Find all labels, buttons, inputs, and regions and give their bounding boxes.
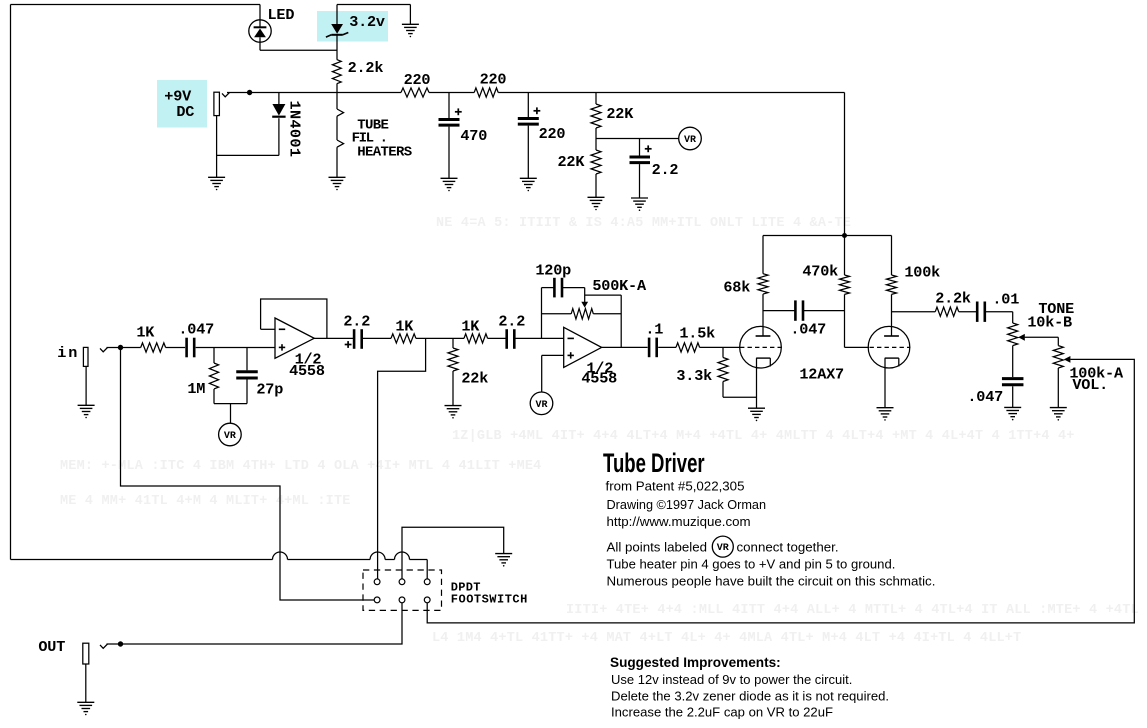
capacitor 470uF bbox=[448, 93, 450, 119]
svg-text:1.5k: 1.5k bbox=[679, 324, 715, 342]
svg-text:MEM: +-MLA :ITC 4 IBM 4TH+ LT: MEM: +-MLA :ITC 4 IBM 4TH+ LTD 4 OLA +4I… bbox=[60, 459, 541, 474]
capacitor .047 input bbox=[185, 338, 188, 358]
svg-text:Suggested Improvements:: Suggested Improvements: bbox=[610, 655, 781, 670]
svg-text:in: in bbox=[57, 344, 79, 362]
svg-text:Increase the 2.2uF cap on VR t: Increase the 2.2uF cap on VR to 22uF bbox=[611, 705, 833, 720]
resistor 220 first bbox=[401, 88, 429, 97]
potentiometer VOL 100k-A bbox=[1057, 337, 1059, 345]
VR node circle inline bbox=[712, 536, 733, 557]
vol pot wiper arrow bbox=[1064, 356, 1071, 363]
ground under vol pot bbox=[1050, 407, 1067, 409]
op-amp U1A 1/2 4558 bbox=[275, 318, 314, 358]
potentiometer TONE 10k-B bbox=[1008, 323, 1018, 346]
junction node on rail bbox=[247, 90, 252, 95]
capacitor 27p bbox=[246, 348, 248, 371]
jack tip contact out bbox=[100, 644, 108, 648]
wire top-left to LED bbox=[11, 4, 261, 6]
svg-text:.1: .1 bbox=[645, 320, 663, 338]
svg-text:HEATERS: HEATERS bbox=[357, 145, 412, 161]
capacitor .047 tone bbox=[1002, 377, 1024, 380]
wire out jack bbox=[107, 643, 121, 645]
svg-text:DC: DC bbox=[176, 103, 194, 121]
svg-text:Drawing ©1997 Jack Orman: Drawing ©1997 Jack Orman bbox=[607, 498, 767, 512]
svg-text:connect together.: connect together. bbox=[737, 540, 839, 555]
svg-text:.047: .047 bbox=[178, 321, 214, 339]
svg-text:ME 4 MM+ 41TL 4+M 4 MLIT+ 4+ML: ME 4 MM+ 41TL 4+M 4 MLIT+ 4+ML :ITE bbox=[60, 494, 351, 509]
svg-text:IITI+ 4TE+ 4+4 :MLL 4ITT 4+4 A: IITI+ 4TE+ 4+4 :MLL 4ITT 4+4 ALL+ 4 MTTL… bbox=[566, 603, 1139, 618]
svg-text:from Patent #5,022,305: from Patent #5,022,305 bbox=[606, 479, 745, 494]
wire cap to opamp bbox=[196, 347, 275, 349]
ground under tone cap bbox=[1004, 406, 1021, 408]
wire V1B plate output bbox=[892, 311, 936, 313]
wire to opamp2 bbox=[515, 337, 564, 339]
resistor 470k bbox=[844, 236, 846, 276]
VR node circle psu bbox=[679, 127, 702, 150]
svg-text:All points labeled: All points labeled bbox=[607, 540, 708, 555]
wire left border down bbox=[10, 5, 12, 560]
wire LED loop to footswitch with hops bbox=[11, 559, 273, 561]
svg-text:500K-A: 500K-A bbox=[592, 277, 647, 295]
svg-text:22K: 22K bbox=[606, 105, 634, 123]
highlight box 3.2v bbox=[317, 11, 388, 42]
footswitch lugs bbox=[374, 579, 380, 585]
svg-text:Tube Driver: Tube Driver bbox=[603, 448, 705, 478]
svg-text:2.2k: 2.2k bbox=[935, 289, 971, 307]
svg-text:LED: LED bbox=[268, 6, 295, 24]
wire input bbox=[107, 347, 141, 349]
resistor 2.2k output bbox=[935, 307, 958, 316]
resistor 220 second bbox=[474, 88, 498, 97]
ground under 470uF bbox=[441, 177, 458, 179]
svg-text:1K: 1K bbox=[461, 317, 480, 335]
svg-text:VR: VR bbox=[535, 400, 547, 411]
wire VR node bbox=[596, 138, 679, 140]
ground under 22k shunt bbox=[445, 405, 462, 407]
wire 1K to 2.2 cap bbox=[488, 337, 506, 339]
capacitor 120p bbox=[553, 278, 556, 298]
plate lead V1A bbox=[762, 294, 764, 336]
highlight box +9V DC bbox=[157, 80, 207, 128]
grid wire V1B bbox=[845, 346, 870, 348]
resistor 68k bbox=[762, 236, 764, 274]
svg-text:VR: VR bbox=[684, 135, 696, 146]
svg-text:2.2: 2.2 bbox=[498, 312, 525, 330]
junction dot out bbox=[118, 641, 123, 646]
svg-text:12AX7: 12AX7 bbox=[799, 366, 844, 384]
wire 9V jack sleeve to diode bbox=[217, 154, 279, 156]
svg-text:2.2k: 2.2k bbox=[348, 59, 384, 77]
svg-text:10k-B: 10k-B bbox=[1027, 314, 1072, 332]
wire wiper to output side bbox=[585, 294, 622, 296]
wire top zener to ground bbox=[337, 4, 410, 6]
svg-text:220: 220 bbox=[404, 71, 431, 89]
svg-text:1Z|GLB +4ML 4IT+ 4+4 4LT+4 M+4: 1Z|GLB +4ML 4IT+ 4+4 4LT+4 M+4 +4TL 4+ 4… bbox=[452, 429, 1075, 444]
capacitor 2.2uF VR filter bbox=[639, 139, 641, 156]
svg-text:27p: 27p bbox=[256, 381, 283, 399]
resistor 1K mid bbox=[391, 334, 416, 343]
potentiometer 500K-A bbox=[542, 313, 572, 315]
capacitor 2.2 second bbox=[505, 329, 508, 349]
capacitor 2.2 interstage bbox=[353, 329, 356, 349]
resistor 1K input bbox=[141, 343, 166, 352]
svg-text:22K: 22K bbox=[558, 153, 586, 171]
svg-text:3.3k: 3.3k bbox=[676, 367, 712, 385]
svg-text:2.2: 2.2 bbox=[343, 312, 370, 330]
wire junction to footswitch bbox=[378, 338, 426, 578]
wire opamp2 output bbox=[602, 346, 648, 348]
jack tip contact +9V bbox=[222, 93, 230, 97]
wire footswitch to out jack bbox=[121, 603, 403, 644]
wire opamp1 output bbox=[314, 337, 353, 339]
tone pot wiper arrow bbox=[1018, 334, 1025, 341]
ground under out jack bbox=[77, 701, 94, 703]
tube plate supply rail bbox=[763, 235, 892, 237]
svg-text:1N4001: 1N4001 bbox=[286, 101, 304, 158]
resistor 1K second bbox=[464, 334, 488, 343]
svg-text:120p: 120p bbox=[535, 261, 571, 279]
svg-text:100k: 100k bbox=[904, 263, 940, 281]
wire 120p to wiper bbox=[561, 287, 584, 289]
svg-text:.01: .01 bbox=[992, 290, 1019, 308]
svg-text:2.2: 2.2 bbox=[652, 161, 679, 179]
svg-text:NE 4=A 5: ITIIT & IS 4:A5 MM+I: NE 4=A 5: ITIIT & IS 4:A5 MM+ITL ONLT LI… bbox=[436, 216, 851, 231]
capacitor .01 bbox=[976, 302, 979, 322]
ground under heaters bbox=[329, 176, 346, 178]
main power rail bbox=[227, 92, 401, 94]
junction dot input bbox=[118, 345, 123, 350]
jack tip contact in bbox=[100, 348, 108, 352]
feedback network opamp2 bbox=[541, 288, 543, 339]
svg-text:22k: 22k bbox=[461, 369, 488, 387]
wire input tap to footswitch bbox=[121, 348, 375, 601]
svg-text:Tube heater pin 4 goes to +V a: Tube heater pin 4 goes to +V and pin 5 t… bbox=[607, 557, 896, 572]
jack output bbox=[83, 643, 89, 664]
resistor 1M bbox=[213, 348, 215, 364]
ground under 220uF bbox=[520, 177, 537, 179]
svg-text:4558: 4558 bbox=[581, 369, 617, 387]
svg-text:3.2v: 3.2v bbox=[349, 13, 385, 31]
svg-text:Numerous people have built the: Numerous people have built the circuit o… bbox=[607, 574, 936, 589]
triode V1B 12AX7 bbox=[868, 326, 910, 368]
footswitch dashed box bbox=[363, 570, 442, 610]
resistor 22k shunt bbox=[452, 338, 454, 348]
wire 1.5k to grid bbox=[700, 346, 740, 348]
wire cap to 1K bbox=[362, 337, 391, 339]
feedback wire op-amp1 bbox=[261, 328, 275, 330]
ground under V1B cathode bbox=[877, 407, 894, 409]
jack +9V DC bbox=[214, 92, 220, 115]
wire .1 to 1.5k bbox=[658, 346, 676, 348]
resistor 100k bbox=[891, 236, 893, 276]
svg-text:68k: 68k bbox=[723, 278, 750, 296]
LED bbox=[249, 20, 271, 42]
wire plate node V1A bbox=[763, 310, 795, 312]
svg-text:http://www.muzique.com: http://www.muzique.com bbox=[607, 514, 751, 529]
wire footswitch middle lug to ground bbox=[402, 527, 504, 579]
grid dashed line V1B bbox=[870, 346, 911, 348]
ground under input jack bbox=[78, 404, 95, 406]
resistor 22K upper bbox=[595, 93, 597, 105]
VR node circle input stage bbox=[219, 423, 242, 446]
wire 3.3k to cathode bbox=[723, 396, 757, 398]
cathode lead V1B bbox=[884, 358, 886, 408]
resistor 3.3k bbox=[722, 347, 724, 357]
svg-text:1M: 1M bbox=[187, 380, 205, 398]
wire mid junction bbox=[416, 337, 464, 339]
svg-text:220: 220 bbox=[480, 70, 507, 88]
tube filament heater element bbox=[336, 93, 338, 110]
ground under 22K bbox=[588, 196, 605, 198]
junction dot tube rail bbox=[842, 233, 847, 238]
ground under V1A cathode bbox=[748, 407, 765, 409]
wire 1M-27p bottom bbox=[214, 403, 247, 405]
ground under 9V jack bbox=[208, 176, 225, 178]
svg-text:FOOTSWITCH: FOOTSWITCH bbox=[451, 593, 528, 607]
wire rail corner down to tube rail bbox=[844, 93, 846, 236]
svg-text:1K: 1K bbox=[136, 324, 155, 342]
wire 2.2k to .01 bbox=[959, 311, 977, 313]
wire vol wiper to footswitch bbox=[427, 359, 1134, 623]
diode 1N4001 bbox=[278, 93, 280, 105]
capacitor 220uF bbox=[527, 93, 529, 118]
jack input bbox=[83, 347, 88, 366]
wire coupling cap to grid node bbox=[803, 310, 844, 312]
svg-text:L4 1M4 4+TL 41TT+ +4 MAT 4+LT: L4 1M4 4+TL 41TT+ +4 MAT 4+LT 4L+ 4+ 4ML… bbox=[432, 631, 1021, 646]
svg-text:.047: .047 bbox=[790, 321, 826, 339]
capacitor .1 bbox=[648, 338, 651, 358]
grid dashed line V1A bbox=[740, 346, 782, 348]
svg-text:Use 12v instead of 9v to power: Use 12v instead of 9v to power the circu… bbox=[611, 672, 852, 687]
ground top-right bbox=[409, 5, 411, 25]
svg-text:470: 470 bbox=[460, 127, 487, 145]
wire tone wiper to vol pot bbox=[1025, 336, 1059, 338]
ground footswitch bbox=[495, 553, 512, 555]
wire .01 to tone pot bbox=[985, 311, 1012, 313]
VR node circle opamp2 bbox=[530, 392, 553, 415]
resistor 2.2k LED dropper bbox=[332, 60, 341, 84]
svg-text:470k: 470k bbox=[802, 262, 838, 280]
svg-text:OUT: OUT bbox=[38, 638, 65, 656]
plate lead V1B bbox=[891, 294, 893, 335]
capacitor .047 coupling bbox=[794, 300, 797, 320]
svg-text:VOL.: VOL. bbox=[1072, 376, 1108, 394]
svg-text:.047: .047 bbox=[967, 388, 1003, 406]
zener diode 3.2v bbox=[336, 5, 338, 25]
svg-text:VR: VR bbox=[717, 543, 729, 554]
ground under 2.2uF bbox=[631, 197, 648, 199]
wire 1K to cap bbox=[166, 347, 186, 349]
resistor 1.5k bbox=[676, 343, 700, 352]
svg-text:4558: 4558 bbox=[289, 362, 325, 380]
svg-text:Delete the 3.2v zener diode as: Delete the 3.2v zener diode as it is not… bbox=[611, 689, 889, 704]
svg-text:1K: 1K bbox=[395, 317, 414, 335]
svg-text:220: 220 bbox=[539, 125, 566, 143]
op-amp U1B 1/2 4558 bbox=[564, 327, 602, 367]
triode V1A 12AX7 bbox=[740, 326, 782, 368]
svg-text:VR: VR bbox=[224, 431, 236, 442]
cathode lead V1A bbox=[756, 358, 758, 408]
wire opamp2 plus input to VR bbox=[542, 354, 564, 356]
resistor 22K lower bbox=[591, 150, 601, 174]
wiper arrow 500K pot bbox=[581, 302, 588, 308]
wire LED anode to zener bbox=[260, 49, 337, 51]
